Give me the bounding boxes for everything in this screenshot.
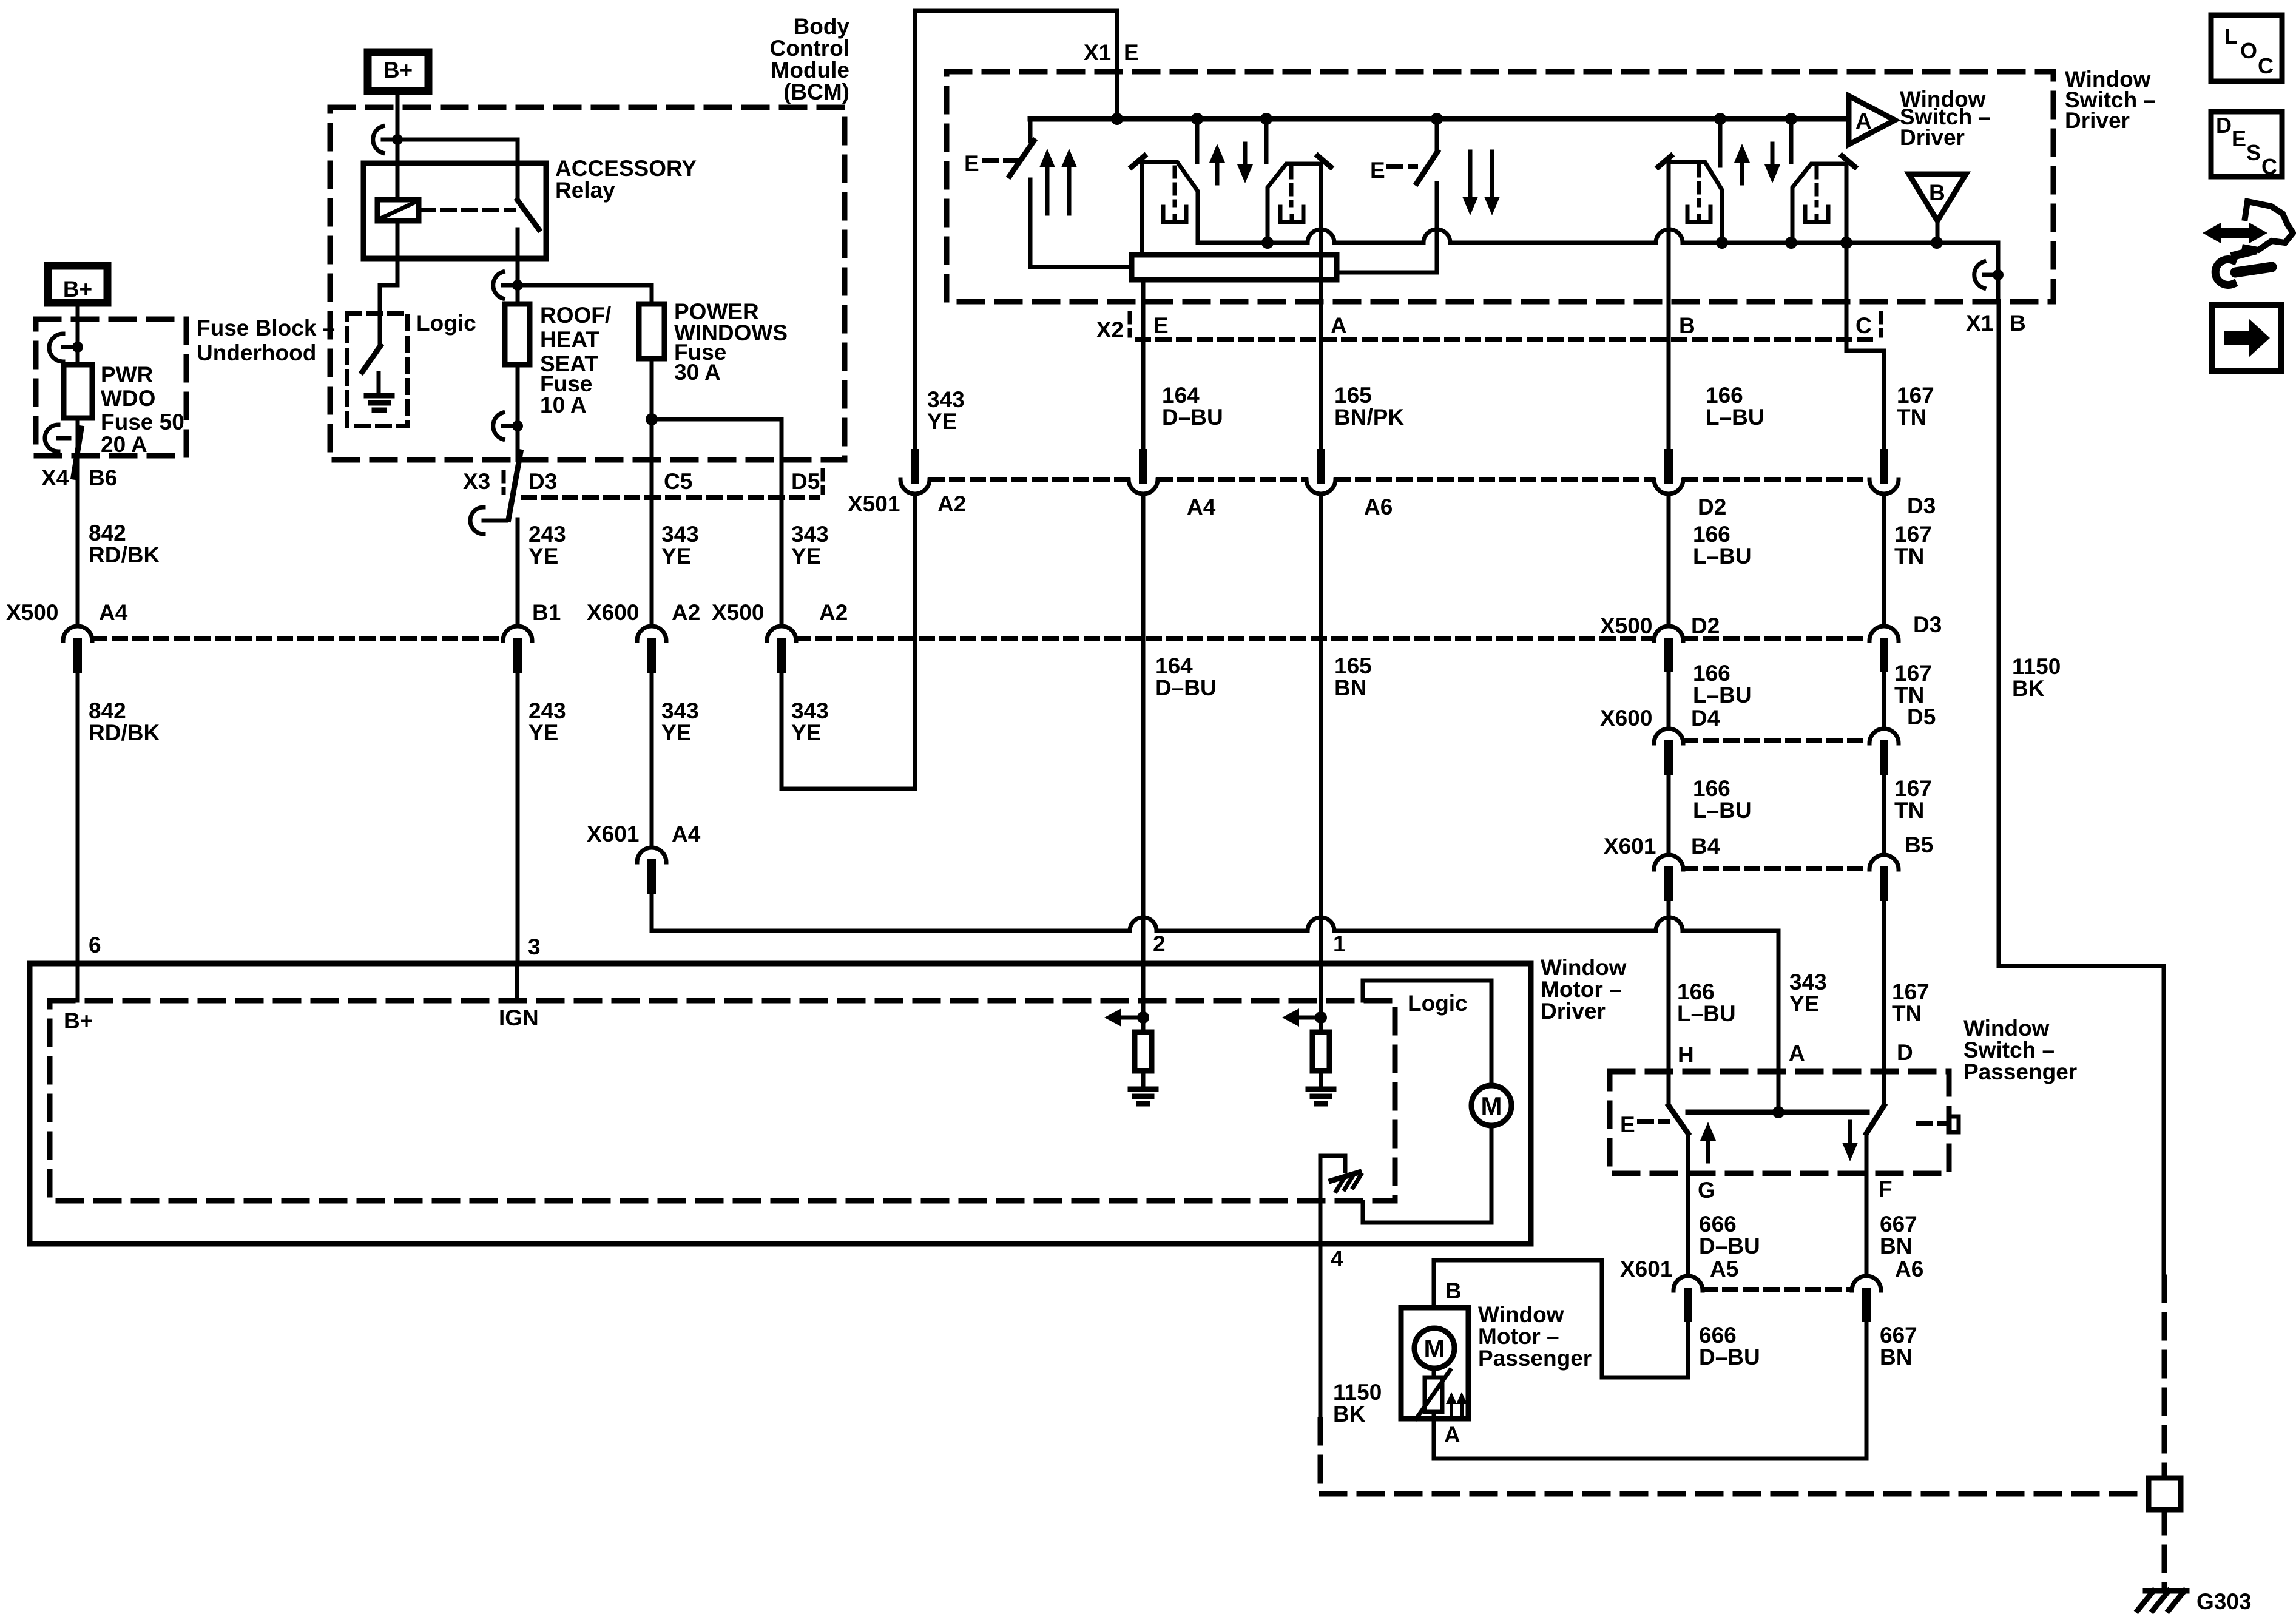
arrow (motor down drive) xyxy=(1282,1008,1321,1027)
wire label 1150 BK xyxy=(2012,654,2061,701)
wire label 167 TN xyxy=(1894,522,1932,569)
relay coil xyxy=(377,200,419,221)
svg-text:YE: YE xyxy=(791,720,821,745)
wire 1150 BK from X1 B xyxy=(1999,302,2164,1277)
contact stub (driver down) xyxy=(1264,119,1269,162)
svg-text:X1: X1 xyxy=(1084,40,1111,65)
svg-text:6: 6 xyxy=(89,933,101,957)
express-up switch (driver) xyxy=(1010,119,1132,267)
svg-text:A4: A4 xyxy=(99,600,128,625)
svg-text:167: 167 xyxy=(1894,776,1932,801)
wire 166 to passenger switch H xyxy=(1667,897,1671,1072)
svg-text:BN/PK: BN/PK xyxy=(1334,405,1404,430)
svg-text:X601: X601 xyxy=(587,822,639,846)
window motor passenger box xyxy=(1401,1308,1468,1419)
wire label 343 YE (passenger feed) xyxy=(1789,970,1827,1016)
wire label 165 BN/PK xyxy=(1334,383,1404,430)
wire label 167 TN xyxy=(1894,776,1932,823)
svg-text:A: A xyxy=(1855,109,1872,133)
svg-text:165: 165 xyxy=(1334,383,1372,408)
node bar junction xyxy=(1772,1106,1784,1118)
bus bar xyxy=(1132,255,1337,280)
svg-text:B1: B1 xyxy=(532,600,561,625)
switch blade H-G xyxy=(1669,1072,1688,1173)
svg-text:TN: TN xyxy=(1892,1001,1922,1026)
svg-text:BN: BN xyxy=(1880,1345,1912,1369)
wire junction to relay switch feed xyxy=(397,140,518,200)
B+ stud clamp xyxy=(49,334,83,362)
svg-text:O: O xyxy=(2240,38,2257,63)
icon wire repair (arrow + wrench) xyxy=(2203,201,2293,285)
svg-text:667: 667 xyxy=(1880,1323,1917,1348)
wire F 667 to X601 A6 xyxy=(1865,1173,1869,1275)
svg-text:D–BU: D–BU xyxy=(1699,1345,1760,1369)
connector row dashes X601 xyxy=(1684,866,1868,871)
svg-text:Body: Body xyxy=(794,14,850,39)
wire relay output to ROOF/HEAT SEAT fuse xyxy=(516,285,520,304)
label Window Switch - Passenger xyxy=(1963,1016,2077,1084)
up arrow (passenger at driver switch) xyxy=(1734,144,1750,183)
label ROOF/HEAT SEAT Fuse 10 A xyxy=(540,303,611,417)
svg-text:D2: D2 xyxy=(1691,613,1720,638)
connector X500 D3 xyxy=(1869,612,1942,667)
svg-text:F: F xyxy=(1879,1176,1893,1201)
label ACCESSORY Relay xyxy=(555,156,697,203)
pin label X4 B6 xyxy=(41,465,117,490)
wire label 164 D-BU xyxy=(1155,653,1217,700)
icon LOC box xyxy=(2211,15,2282,81)
svg-text:YE: YE xyxy=(791,544,821,569)
svg-text:X500: X500 xyxy=(712,600,764,625)
svg-text:X500: X500 xyxy=(6,600,58,625)
ground (164 side) xyxy=(1130,1071,1156,1104)
connector row dashes X600 xyxy=(1684,738,1868,743)
svg-text:C: C xyxy=(2261,154,2277,179)
wire label 1150 BK xyxy=(1333,1380,1382,1426)
svg-text:Driver: Driver xyxy=(2065,108,2130,133)
connector X4 pass-through xyxy=(45,425,81,477)
connector row X2 labels xyxy=(1096,311,2026,342)
svg-text:YE: YE xyxy=(661,544,691,569)
connector X501 D3 xyxy=(1869,453,1936,518)
ground path dashed (driver motor) xyxy=(1320,1420,2147,1494)
wire label 842 RD/BK xyxy=(89,521,160,567)
wire label 166 L-BU xyxy=(1706,383,1764,430)
wire label 166 L-BU xyxy=(1693,661,1752,707)
actuator bracket (passenger down) xyxy=(1919,1116,1959,1132)
connector X500 A2 xyxy=(712,600,848,669)
svg-text:A: A xyxy=(1444,1422,1460,1447)
svg-text:667: 667 xyxy=(1880,1212,1917,1237)
switch output rail (lower) with crossovers xyxy=(1198,229,1998,302)
svg-text:L–BU: L–BU xyxy=(1693,798,1752,823)
svg-text:RD/BK: RD/BK xyxy=(89,720,160,745)
svg-text:Fuse 50: Fuse 50 xyxy=(101,410,184,434)
icon forward arrow box xyxy=(2212,305,2281,371)
resistor (165 side) xyxy=(1312,1032,1329,1071)
svg-text:Driver: Driver xyxy=(1900,125,1965,150)
svg-text:BN: BN xyxy=(1880,1234,1912,1258)
svg-text:A2: A2 xyxy=(672,600,700,625)
svg-text:1150: 1150 xyxy=(1333,1380,1382,1405)
contact stub (driver up) xyxy=(1195,119,1200,162)
wire 667 to motor A xyxy=(1434,1318,1866,1459)
svg-text:E: E xyxy=(2232,126,2246,151)
svg-text:RD/BK: RD/BK xyxy=(89,542,160,567)
svg-text:10 A: 10 A xyxy=(540,393,587,417)
actuator E (express down) xyxy=(1370,158,1416,183)
connector row dashes X601 A5-A6 xyxy=(1704,1287,1851,1292)
svg-text:Module: Module xyxy=(771,58,849,83)
svg-text:D2: D2 xyxy=(1698,495,1726,519)
svg-text:A: A xyxy=(1789,1041,1805,1065)
svg-text:BK: BK xyxy=(2012,676,2045,701)
window motor driver box xyxy=(30,964,1531,1244)
wire fuse to X3 xyxy=(516,365,520,460)
svg-text:E: E xyxy=(964,151,979,176)
wire 166 xyxy=(1667,494,1671,625)
connector X500 D2 xyxy=(1600,613,1720,667)
svg-text:D3: D3 xyxy=(528,469,557,494)
svg-text:B4: B4 xyxy=(1691,834,1720,859)
svg-text:L–BU: L–BU xyxy=(1706,405,1764,430)
connector X501 A4 xyxy=(1129,453,1216,519)
wire 167 xyxy=(1882,494,1886,625)
svg-text:167: 167 xyxy=(1894,522,1932,547)
svg-text:B+: B+ xyxy=(64,1008,93,1033)
svg-text:166: 166 xyxy=(1677,979,1715,1004)
label PWR WDO Fuse 50 20 A xyxy=(101,362,184,457)
power symbol B+ (fuse block) xyxy=(48,266,107,303)
wire relay output to POWER WINDOWS fuse xyxy=(518,285,652,304)
svg-text:343: 343 xyxy=(927,387,965,412)
buffer B (window switch driver input) xyxy=(1909,174,1966,243)
svg-text:164: 164 xyxy=(1162,383,1200,408)
svg-text:2: 2 xyxy=(1153,931,1166,956)
svg-text:D–BU: D–BU xyxy=(1162,405,1223,430)
svg-text:A2: A2 xyxy=(937,491,966,516)
BCM dashed box xyxy=(330,107,845,460)
svg-text:M: M xyxy=(1481,1092,1502,1120)
wire X3 to B1 xyxy=(516,519,520,625)
svg-text:X500: X500 xyxy=(1600,613,1652,638)
svg-text:D: D xyxy=(1897,1040,1913,1065)
connector X601 B5 xyxy=(1869,832,1933,897)
svg-text:842: 842 xyxy=(89,521,126,545)
wire X500/A2 down and over to X501 feed xyxy=(782,495,915,789)
accessory relay box xyxy=(363,163,546,258)
svg-text:C: C xyxy=(2258,53,2274,78)
svg-text:Underhood: Underhood xyxy=(197,340,316,365)
B+ stud clamp with junction xyxy=(373,126,403,153)
svg-text:4: 4 xyxy=(1331,1246,1343,1271)
svg-text:B: B xyxy=(1445,1278,1462,1303)
up arrows (express) xyxy=(1039,149,1077,214)
svg-text:X501: X501 xyxy=(848,491,900,516)
wire label 243 YE xyxy=(528,698,566,745)
svg-text:167: 167 xyxy=(1894,661,1932,686)
svg-text:165: 165 xyxy=(1334,653,1372,678)
connector X601 A6 xyxy=(1852,1257,1923,1318)
motor M (passenger) xyxy=(1414,1328,1454,1377)
wire label 166 L-BU xyxy=(1693,776,1752,823)
svg-text:B: B xyxy=(2010,311,2026,336)
wire pin 1 internal xyxy=(1319,964,1323,1032)
wire label 343 YE xyxy=(791,698,829,745)
window symbol 1 (driver up) xyxy=(1132,156,1198,254)
connector X600 D4 xyxy=(1600,706,1720,771)
svg-text:167: 167 xyxy=(1897,383,1934,408)
wire fuse to X500/A4 xyxy=(76,418,80,625)
label POWER WINDOWS Fuse 30 A xyxy=(674,299,788,385)
svg-text:C: C xyxy=(1855,313,1872,338)
svg-text:E: E xyxy=(1370,158,1385,183)
relay actuator dashed link xyxy=(421,208,513,212)
svg-text:A4: A4 xyxy=(1187,495,1216,519)
window switch passenger dashed box xyxy=(1610,1072,1949,1173)
svg-text:343: 343 xyxy=(661,522,699,547)
window switch driver dashed box xyxy=(947,72,2053,302)
wire 167 (X2 C) with jog xyxy=(1846,243,1884,453)
svg-text:166: 166 xyxy=(1693,661,1730,686)
node pin 2 xyxy=(1137,1011,1149,1024)
svg-text:D5: D5 xyxy=(791,469,820,494)
thermal limiter (passenger motor) xyxy=(1408,1370,1450,1419)
svg-text:IGN: IGN xyxy=(499,1005,539,1030)
svg-text:X600: X600 xyxy=(1600,706,1652,731)
svg-text:X3: X3 xyxy=(463,469,490,494)
wire 166 xyxy=(1667,771,1671,854)
svg-text:1: 1 xyxy=(1333,931,1346,956)
svg-text:167: 167 xyxy=(1892,979,1930,1004)
svg-text:B: B xyxy=(1679,313,1695,338)
wire B1 to motor box pin 3 xyxy=(516,669,520,964)
svg-text:243: 243 xyxy=(528,522,566,547)
svg-text:D3: D3 xyxy=(1913,612,1942,637)
svg-text:M: M xyxy=(1424,1334,1445,1363)
pin label X1 E xyxy=(1084,40,1139,65)
svg-text:343: 343 xyxy=(791,522,829,547)
svg-text:D4: D4 xyxy=(1691,706,1720,731)
svg-text:L–BU: L–BU xyxy=(1693,683,1752,707)
svg-text:ROOF/: ROOF/ xyxy=(540,303,611,328)
wire 166 xyxy=(1667,667,1671,727)
svg-text:B+: B+ xyxy=(383,58,413,83)
svg-text:E: E xyxy=(1153,313,1169,338)
wire label 164 D-BU xyxy=(1162,383,1223,430)
svg-text:666: 666 xyxy=(1699,1212,1737,1237)
svg-text:C5: C5 xyxy=(664,469,692,494)
wire B+ to PWR WDO fuse xyxy=(76,307,80,365)
svg-text:Window: Window xyxy=(1478,1302,1564,1327)
express-down switch (driver) xyxy=(1337,119,1437,272)
svg-text:BK: BK xyxy=(1333,1402,1366,1426)
wire label 243 YE xyxy=(528,522,566,569)
switch feed rail xyxy=(1030,116,1849,122)
connector X600 A2 xyxy=(587,600,700,669)
svg-text:166: 166 xyxy=(1706,383,1743,408)
svg-text:166: 166 xyxy=(1693,522,1730,547)
svg-text:A5: A5 xyxy=(1710,1257,1738,1281)
down arrow (passenger switch) xyxy=(1842,1122,1858,1161)
svg-text:G: G xyxy=(1698,1178,1715,1203)
connector X501 A2 (inverted) xyxy=(848,453,966,516)
connector row dashes X500 left xyxy=(93,636,502,641)
svg-text:164: 164 xyxy=(1155,653,1193,678)
relay switch blade xyxy=(518,200,539,229)
node fuse output xyxy=(646,413,658,425)
logic switch blade xyxy=(362,346,380,372)
connector row dashes X3 xyxy=(523,495,818,500)
svg-text:YE: YE xyxy=(1789,991,1819,1016)
wire 164 (X2 E) xyxy=(1141,280,1146,453)
label Body Control Module (BCM) xyxy=(769,14,849,104)
svg-text:(BCM): (BCM) xyxy=(783,79,849,104)
window symbol 4 (passenger down, mirrored) xyxy=(1792,156,1855,243)
relay switch lower contact wire xyxy=(516,229,520,285)
svg-text:Logic: Logic xyxy=(1408,991,1468,1016)
svg-text:Motor –: Motor – xyxy=(1478,1324,1559,1349)
power symbol B+ (relay) xyxy=(368,52,428,91)
connector X501 A6 xyxy=(1306,453,1393,519)
svg-text:D: D xyxy=(2216,113,2232,138)
wire label 343 YE (C5) xyxy=(661,522,699,569)
svg-text:S: S xyxy=(2246,140,2261,165)
splice box (ground) xyxy=(2149,1478,2181,1510)
up arrow (driver) xyxy=(1209,144,1225,183)
B+ stud clamp below fuse xyxy=(493,413,523,439)
svg-text:X2: X2 xyxy=(1096,317,1124,342)
connector X500 A4 xyxy=(6,600,128,669)
motor logic dashed box xyxy=(50,1001,1395,1201)
svg-text:Window: Window xyxy=(1963,1016,2050,1041)
node pin 1 xyxy=(1315,1011,1327,1024)
svg-text:X1: X1 xyxy=(1966,311,1993,336)
wire label 343 YE (X501 feed) xyxy=(927,387,965,434)
wire label 166 L-BU xyxy=(1677,979,1736,1026)
svg-text:BN: BN xyxy=(1334,675,1366,700)
wire label 667 BN xyxy=(1880,1212,1917,1258)
svg-text:X600: X600 xyxy=(587,600,639,625)
wire 165 (X2 A) xyxy=(1319,164,1323,453)
label Window Motor - Passenger xyxy=(1478,1302,1592,1371)
svg-text:30 A: 30 A xyxy=(674,360,721,385)
svg-text:A: A xyxy=(1331,313,1347,338)
svg-text:X601: X601 xyxy=(1620,1257,1672,1281)
wire G 666 to X601 A5 xyxy=(1686,1173,1690,1275)
wire X500/A4 to motor box pin 6 xyxy=(76,669,80,964)
svg-text:HEAT: HEAT xyxy=(540,327,599,352)
ground path below splice xyxy=(2162,1510,2167,1586)
ground (165 side) xyxy=(1308,1071,1334,1104)
fuse ROOF/HEAT SEAT 10A xyxy=(505,304,530,365)
connector X601 B4 xyxy=(1604,834,1720,897)
svg-text:YE: YE xyxy=(661,720,691,745)
label Window Motor - Driver xyxy=(1541,955,1627,1024)
svg-text:PWR: PWR xyxy=(101,362,153,387)
wire junction to relay coil xyxy=(396,140,400,200)
connector row dashes X2 xyxy=(1137,337,1877,342)
svg-text:243: 243 xyxy=(528,698,566,723)
svg-text:A6: A6 xyxy=(1364,495,1393,519)
buffer A (window switch driver output) xyxy=(1849,96,1895,144)
svg-text:Control: Control xyxy=(769,36,849,61)
svg-text:B5: B5 xyxy=(1905,832,1933,857)
ground (BCM logic) xyxy=(366,373,392,410)
svg-text:TN: TN xyxy=(1897,405,1926,430)
svg-text:TN: TN xyxy=(1894,798,1924,823)
svg-text:L–BU: L–BU xyxy=(1693,544,1752,569)
svg-text:E: E xyxy=(1620,1112,1635,1137)
wire 167 xyxy=(1882,771,1886,854)
svg-text:WDO: WDO xyxy=(101,386,155,411)
BCM logic dashed box xyxy=(347,314,408,426)
svg-text:Window: Window xyxy=(1541,955,1627,980)
pin B+ stub xyxy=(76,964,80,1001)
wire A feed into bar xyxy=(1777,1072,1781,1112)
connector X501 D2 xyxy=(1654,453,1726,519)
svg-text:D3: D3 xyxy=(1907,493,1936,518)
wire D5 to X500 xyxy=(780,460,784,625)
label Fuse Block - Underhood xyxy=(197,316,335,365)
relay output B+ clamp junction xyxy=(493,272,523,299)
svg-text:343: 343 xyxy=(661,698,699,723)
label Window Switch - Driver (box) xyxy=(2065,67,2156,133)
pin label X3 D3 xyxy=(463,469,557,494)
svg-text:Passenger: Passenger xyxy=(1963,1059,2077,1084)
B+ stud clamp (X1 B) xyxy=(1974,262,2004,288)
wire 167 xyxy=(1882,667,1886,727)
wire branch to D5 xyxy=(652,419,782,460)
svg-text:20 A: 20 A xyxy=(101,432,147,457)
svg-text:343: 343 xyxy=(791,698,829,723)
chassis ground hook (pin 4) xyxy=(1320,1156,1361,1191)
svg-text:G303: G303 xyxy=(2196,1589,2252,1614)
connector X601 A5 xyxy=(1620,1257,1738,1318)
wire pin 4 xyxy=(1319,1156,1323,1420)
svg-text:A2: A2 xyxy=(819,600,848,625)
switch common bar xyxy=(1688,1110,1867,1115)
node lower rail junctions xyxy=(1261,237,1943,249)
down arrow (driver) xyxy=(1237,144,1253,183)
svg-text:B: B xyxy=(1929,180,1945,205)
wire label 842 RD/BK xyxy=(89,698,160,745)
svg-text:L–BU: L–BU xyxy=(1677,1001,1736,1026)
wire 164 to motor pin 2 xyxy=(1141,494,1146,964)
fuse POWER WINDOWS 30A xyxy=(639,304,664,359)
wire 167 to passenger switch D xyxy=(1882,897,1886,1072)
wire 165 to motor pin 1 xyxy=(1319,494,1323,964)
window symbol 3 (passenger up) xyxy=(1658,156,1722,243)
svg-text:TN: TN xyxy=(1894,683,1924,707)
connector X3 pass-through xyxy=(470,452,521,534)
wire label 666 D-BU xyxy=(1699,1212,1760,1258)
svg-text:ACCESSORY: ACCESSORY xyxy=(555,156,697,181)
svg-text:X601: X601 xyxy=(1604,834,1656,859)
fuse block underhood dashed box xyxy=(36,319,186,456)
wire label 167 TN xyxy=(1897,383,1934,430)
svg-text:343: 343 xyxy=(1789,970,1827,994)
wire 166 (X2 B) xyxy=(1667,162,1671,453)
contact stub (passenger down at driver switch) xyxy=(1789,119,1794,162)
up arrow (passenger switch) xyxy=(1700,1122,1716,1161)
svg-text:B+: B+ xyxy=(63,277,92,302)
wire label 667 BN xyxy=(1880,1323,1917,1369)
arrow (motor up drive) xyxy=(1104,1008,1143,1027)
switch blade D-F xyxy=(1866,1072,1884,1173)
svg-text:Relay: Relay xyxy=(555,178,615,203)
resistor (164 side) xyxy=(1135,1032,1152,1071)
